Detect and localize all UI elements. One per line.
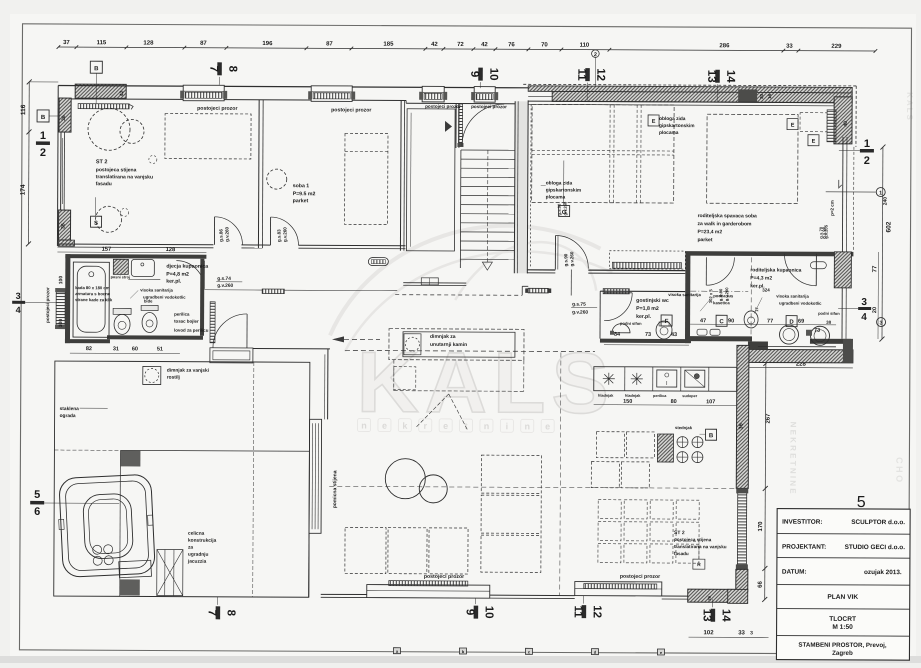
axis marker circled 2 top xyxy=(592,50,600,58)
ST2 dashed circle lower xyxy=(96,206,122,232)
svg-text:p=2 cm: p=2 cm xyxy=(830,200,835,216)
dining table dashed grid xyxy=(598,500,621,519)
wardrobe dashed right xyxy=(800,113,827,132)
section marker 9/10 top xyxy=(478,68,483,81)
section marker 13/14 top xyxy=(715,70,720,83)
svg-text:2: 2 xyxy=(40,147,46,159)
boxed D xyxy=(786,316,797,327)
svg-text:66: 66 xyxy=(758,580,764,587)
svg-text:38: 38 xyxy=(826,320,832,325)
guest wc sink xyxy=(612,324,630,333)
svg-text:e: e xyxy=(545,421,550,431)
bidet xyxy=(141,305,158,310)
svg-text:unutarnji kamin: unutarnji kamin xyxy=(430,342,467,348)
door master bedroom xyxy=(554,235,556,269)
window soba1 top xyxy=(311,86,352,102)
section marker 11/12 top xyxy=(585,68,590,81)
svg-text:postojeci prozor: postojeci prozor xyxy=(197,106,237,112)
living room left wall upper xyxy=(327,349,329,419)
svg-text:E: E xyxy=(791,123,795,129)
svg-text:za: za xyxy=(188,546,193,551)
svg-text:g.s.90: g.s.90 xyxy=(821,226,826,239)
svg-text:128: 128 xyxy=(166,247,176,253)
svg-text:90: 90 xyxy=(728,318,734,324)
svg-text:4: 4 xyxy=(16,305,21,315)
svg-text:g.s.86: g.s.86 xyxy=(218,229,223,242)
svg-text:postojeca stijena: postojeca stijena xyxy=(674,537,712,542)
master wing top wall hatched band xyxy=(523,84,856,86)
svg-text:rostilj: rostilj xyxy=(167,375,180,381)
svg-text:g.v.260: g.v.260 xyxy=(569,251,574,266)
svg-text:42: 42 xyxy=(481,42,488,48)
svg-text:102: 102 xyxy=(704,630,715,636)
section marker 7/8 top xyxy=(217,62,222,75)
svg-text:PROJEKTANT:: PROJEKTANT: xyxy=(782,544,826,551)
svg-text:G: G xyxy=(562,210,567,216)
svg-text:ugradbeni vodokotlic: ugradbeni vodokotlic xyxy=(779,301,822,306)
svg-text:115: 115 xyxy=(97,40,107,46)
svg-text:obloga zida: obloga zida xyxy=(659,116,686,122)
jacuzzi step xyxy=(119,560,152,578)
bathroom sink xyxy=(131,259,154,276)
svg-text:n: n xyxy=(484,421,490,431)
svg-text:PLAN VIK: PLAN VIK xyxy=(827,594,858,601)
living bottom window 1 xyxy=(367,585,490,599)
svg-text:100: 100 xyxy=(58,319,64,328)
svg-text:staklena: staklena xyxy=(60,406,80,412)
coffee tables circles xyxy=(385,459,425,499)
svg-text:36: 36 xyxy=(739,423,745,429)
svg-text:150: 150 xyxy=(623,399,632,405)
svg-text:107: 107 xyxy=(706,399,715,405)
svg-text:11: 11 xyxy=(572,605,584,618)
toilet xyxy=(113,308,131,314)
axis marker circled 3 xyxy=(877,318,886,327)
top-right corner wall xyxy=(834,97,852,144)
left exterior wall lower block xyxy=(58,210,70,240)
bottom frame tick boxes xyxy=(393,648,400,654)
svg-text:postojeci prozor: postojeci prozor xyxy=(424,574,464,580)
svg-text:hladnjak: hladnjak xyxy=(625,394,641,398)
svg-text:69: 69 xyxy=(798,319,804,325)
svg-text:stednjak: stednjak xyxy=(675,425,693,430)
window closet room top xyxy=(422,86,444,102)
svg-text:6: 6 xyxy=(34,506,40,518)
svg-text:72: 72 xyxy=(457,42,464,48)
top-left wall block xyxy=(75,84,126,91)
watermark nekretnine letter boxes xyxy=(358,419,371,432)
svg-text:8: 8 xyxy=(225,610,237,617)
svg-text:n: n xyxy=(361,421,367,431)
door bedroom-bath xyxy=(705,257,707,285)
master bedroom dashed ceiling outline left xyxy=(532,104,674,203)
svg-text:47: 47 xyxy=(700,318,706,324)
boxed label B left xyxy=(37,110,49,122)
ST2 room bottom wall xyxy=(57,243,213,246)
svg-text:plocama: plocama xyxy=(546,194,566,200)
vent grille pill soba1 xyxy=(368,258,388,266)
svg-text:3: 3 xyxy=(750,630,753,636)
svg-text:P=4,3 m2: P=4,3 m2 xyxy=(750,275,772,281)
svg-text:7: 7 xyxy=(207,66,219,72)
svg-text:soba 1: soba 1 xyxy=(293,183,310,189)
svg-text:B: B xyxy=(94,66,99,72)
svg-text:strane kade za klik: strane kade za klik xyxy=(75,297,113,302)
svg-text:F: F xyxy=(665,319,669,325)
svg-text:posni stroj: posni stroj xyxy=(111,275,130,279)
svg-text:jacuzzia: jacuzzia xyxy=(187,559,207,565)
burner symbols xyxy=(603,373,615,385)
svg-text:36: 36 xyxy=(61,115,67,121)
soba1 bed dashed xyxy=(345,133,388,224)
terrace column upper xyxy=(120,450,140,466)
svg-text:e: e xyxy=(382,421,387,431)
svg-text:pomicna stijena: pomicna stijena xyxy=(332,470,338,508)
svg-text:parket: parket xyxy=(293,198,309,204)
vent pill master bath xyxy=(810,262,826,269)
terrace outline xyxy=(54,361,310,597)
dashed construction line bath xyxy=(750,257,752,345)
svg-text:t: t xyxy=(465,421,468,431)
section marker 13/14 bottom xyxy=(711,609,716,622)
jacuzzi side handles xyxy=(59,519,64,529)
bathroom wing right glass wall xyxy=(841,137,844,252)
sofa dashed horizontal xyxy=(345,527,386,573)
svg-text:SCULPTOR d.o.o.: SCULPTOR d.o.o. xyxy=(851,519,905,526)
svg-text:gipskartonskim: gipskartonskim xyxy=(659,123,694,129)
svg-text:E: E xyxy=(812,139,816,145)
svg-text:tosac bojler: tosac bojler xyxy=(174,319,199,324)
svg-text:P=23,4 m2: P=23,4 m2 xyxy=(698,229,723,235)
svg-text:9: 9 xyxy=(468,71,480,77)
svg-text:77: 77 xyxy=(872,265,878,272)
top dimension line xyxy=(58,47,875,51)
svg-text:visoka sanitarija: visoka sanitarija xyxy=(140,287,173,292)
corridor dashed floor line xyxy=(345,350,595,351)
svg-text:postojeci prozor: postojeci prozor xyxy=(425,104,461,109)
svg-text:g.s.74: g.s.74 xyxy=(217,276,231,282)
svg-text:ST 2: ST 2 xyxy=(96,159,108,165)
corridor ceiling line xyxy=(204,289,262,291)
svg-text:76: 76 xyxy=(508,42,515,48)
dim 228 under bath wing xyxy=(748,366,853,369)
bottom right vertical dimension 170 66 xyxy=(765,363,766,599)
svg-text:82: 82 xyxy=(86,346,92,352)
svg-text:84: 84 xyxy=(614,332,621,338)
master bedroom bottom wall right segment xyxy=(588,269,685,271)
svg-text:170: 170 xyxy=(758,521,764,532)
section marker 7/8 bottom xyxy=(216,606,221,619)
svg-text:ST 2: ST 2 xyxy=(674,530,685,536)
svg-text:80: 80 xyxy=(671,399,677,405)
left wall corner piece xyxy=(58,240,74,246)
guest wc toilet xyxy=(656,321,672,339)
guest wc walls xyxy=(600,290,685,292)
bottom dims 102 33 xyxy=(689,636,769,638)
svg-text:STAMBENI PROSTOR, Prevoj,: STAMBENI PROSTOR, Prevoj, xyxy=(798,642,886,649)
door ST2-corridor xyxy=(213,217,215,245)
soba1 bottom wall xyxy=(262,244,270,246)
svg-text:i: i xyxy=(506,421,509,431)
svg-text:174: 174 xyxy=(20,184,27,195)
svg-text:gipskartonskim: gipskartonskim xyxy=(546,187,581,193)
shower area bottom wall xyxy=(690,336,752,341)
construction dashed lines living xyxy=(560,352,561,595)
svg-text:267: 267 xyxy=(766,413,772,424)
svg-text:E: E xyxy=(652,119,656,125)
small table under stairs xyxy=(421,278,438,285)
svg-text:g.s.90: g.s.90 xyxy=(563,253,568,266)
svg-text:C H O: C H O xyxy=(894,457,904,482)
jacuzzi xyxy=(57,474,156,580)
svg-text:11: 11 xyxy=(575,68,587,81)
master bedroom bottom wall left segment xyxy=(527,269,555,271)
svg-text:157: 157 xyxy=(102,247,112,253)
svg-text:240: 240 xyxy=(883,197,889,206)
section marker 11/12 bottom xyxy=(582,605,587,618)
door soba1-corridor xyxy=(269,217,271,245)
svg-text:13: 13 xyxy=(705,70,717,83)
svg-text:87: 87 xyxy=(326,41,333,47)
svg-text:konstrukcija: konstrukcija xyxy=(188,538,217,544)
svg-text:N E K R E T N I N E: N E K R E T N I N E xyxy=(788,422,797,495)
closet room right wall xyxy=(455,104,457,148)
svg-text:roditeljska spavaca soba: roditeljska spavaca soba xyxy=(698,213,757,219)
cabinet strip right wall xyxy=(827,110,836,142)
svg-text:33: 33 xyxy=(738,630,745,636)
svg-text:g.v.260: g.v.260 xyxy=(224,226,229,241)
svg-text:ugradnju: ugradnju xyxy=(188,552,209,558)
stove block xyxy=(657,434,673,462)
svg-text:R: R xyxy=(697,562,701,568)
stairs xyxy=(461,149,515,151)
svg-text:70: 70 xyxy=(541,42,548,48)
corridor top dashed line under stairs xyxy=(395,294,522,297)
svg-text:36: 36 xyxy=(61,223,67,229)
radiator corridor wall xyxy=(210,302,215,343)
closet room bottom wall xyxy=(403,282,466,284)
terrace dashed vertical xyxy=(253,362,254,597)
svg-text:dimnjak za: dimnjak za xyxy=(430,334,456,340)
dark wall block top xyxy=(738,89,757,102)
svg-text:Zagreb: Zagreb xyxy=(832,650,853,657)
svg-text:12: 12 xyxy=(591,605,603,618)
stove burners xyxy=(677,437,688,448)
svg-text:armatura s bocne: armatura s bocne xyxy=(75,291,111,296)
bath wing bottom hatched band xyxy=(748,349,853,363)
title block table xyxy=(776,509,910,661)
svg-text:lovod za perilicu: lovod za perilicu xyxy=(174,328,209,333)
left wall glass strip ST2 xyxy=(60,132,62,210)
svg-text:5: 5 xyxy=(34,489,40,501)
boxed label G master xyxy=(559,205,570,216)
top exterior wall inner line xyxy=(58,99,406,101)
axis marker circled 1 xyxy=(876,188,885,197)
svg-text:42: 42 xyxy=(119,90,125,96)
svg-text:10: 10 xyxy=(487,68,499,81)
svg-text:13: 13 xyxy=(701,609,713,622)
left exterior wall upper blocks xyxy=(59,98,71,132)
svg-text:parket: parket xyxy=(697,237,712,243)
threshold grille corridor xyxy=(528,288,548,293)
svg-text:M 1:50: M 1:50 xyxy=(832,624,853,631)
svg-text:43: 43 xyxy=(671,332,677,338)
svg-text:1: 1 xyxy=(40,130,46,142)
kamin media unit xyxy=(389,329,524,361)
svg-text:g.s.75: g.s.75 xyxy=(572,302,586,308)
svg-text:fasadu: fasadu xyxy=(674,551,689,556)
jacuzzi jets xyxy=(92,545,101,554)
svg-text:sudoper: sudoper xyxy=(682,394,698,398)
living bottom window 2 xyxy=(575,582,662,596)
boxed F xyxy=(661,315,672,326)
door stairwell top xyxy=(458,104,462,146)
svg-text:e: e xyxy=(443,421,448,431)
left dimension line xyxy=(27,82,30,244)
svg-text:1: 1 xyxy=(879,191,882,197)
svg-text:INVESTITOR:: INVESTITOR: xyxy=(782,519,822,526)
svg-text:P=4,8 m2: P=4,8 m2 xyxy=(166,272,189,278)
washing machine xyxy=(113,259,128,274)
svg-text:116: 116 xyxy=(20,104,27,115)
bathtub xyxy=(73,262,109,337)
komarnik box xyxy=(693,559,705,569)
svg-text:37: 37 xyxy=(63,40,70,46)
closet room furniture xyxy=(406,109,455,251)
boxed label B top xyxy=(90,61,102,73)
svg-text:g.v.260: g.v.260 xyxy=(572,310,588,316)
svg-text:DATUM:: DATUM: xyxy=(782,569,807,576)
svg-text:73: 73 xyxy=(814,328,820,334)
window ST2 top xyxy=(183,85,224,101)
svg-text:podni sifon: podni sifon xyxy=(818,311,840,316)
svg-text:20: 20 xyxy=(872,307,878,313)
svg-text:perilica: perilica xyxy=(653,394,667,398)
kitchen wall window strip xyxy=(737,490,746,566)
bottom right hatched wall block xyxy=(688,589,736,602)
svg-text:fasadu: fasadu xyxy=(96,181,112,187)
master bath counter line xyxy=(758,345,836,347)
svg-text:r: r xyxy=(423,421,427,431)
wall wc/shower divider xyxy=(685,255,690,343)
svg-text:40: 40 xyxy=(843,121,849,127)
sofa dashed vertical xyxy=(481,455,541,493)
svg-text:visoka sanitarija: visoka sanitarija xyxy=(776,294,809,299)
terrace steps xyxy=(157,550,183,596)
kitchen worktop square xyxy=(685,370,705,387)
kitchen counter xyxy=(594,367,737,392)
svg-text:73: 73 xyxy=(645,332,651,338)
svg-text:g.v.260: g.v.260 xyxy=(282,227,287,242)
top exterior wall outer line xyxy=(58,86,528,88)
svg-text:roditeljska kupaonica: roditeljska kupaonica xyxy=(750,267,801,273)
diagonal dashed leaders xyxy=(416,394,449,428)
svg-text:30: 30 xyxy=(759,93,764,99)
svg-text:ograda: ograda xyxy=(60,413,76,419)
terrace column lower xyxy=(120,579,140,595)
svg-text:229: 229 xyxy=(831,44,842,50)
svg-text:postojeci prozor: postojeci prozor xyxy=(620,574,660,580)
svg-text:obloga zida: obloga zida xyxy=(546,180,573,186)
svg-text:ker.pl.: ker.pl. xyxy=(166,279,182,285)
svg-text:77: 77 xyxy=(767,319,773,325)
svg-text:djecja kupaonica: djecja kupaonica xyxy=(166,264,208,270)
boxed C xyxy=(716,315,727,326)
svg-text:286: 286 xyxy=(719,43,730,49)
svg-text:hladnjak: hladnjak xyxy=(598,394,614,398)
svg-text:B: B xyxy=(41,115,46,121)
stairwell right wall xyxy=(514,101,528,273)
svg-text:perilica: perilica xyxy=(174,312,190,317)
kitchen wall lower hatched xyxy=(736,569,748,591)
svg-text:dimnjak za vanjski: dimnjak za vanjski xyxy=(167,368,209,374)
svg-text:translatirana na vanjsku: translatirana na vanjsku xyxy=(96,174,153,180)
svg-text:P=1,8 m2: P=1,8 m2 xyxy=(636,306,659,312)
svg-text:n: n xyxy=(524,421,530,431)
section marker 9/10 bottom xyxy=(474,606,479,619)
svg-text:4: 4 xyxy=(861,312,867,323)
svg-text:ozujak 2013.: ozujak 2013. xyxy=(864,569,902,576)
bathroom wing top wall dark xyxy=(685,251,853,256)
divider soba1 / closet room xyxy=(399,101,402,251)
svg-text:plocama: plocama xyxy=(659,130,679,136)
svg-text:celicna: celicna xyxy=(188,531,205,537)
svg-text:10: 10 xyxy=(483,606,495,619)
boxed B kitchen xyxy=(705,429,716,440)
svg-text:kasetica: kasetica xyxy=(713,300,730,305)
svg-text:K A L S: K A L S xyxy=(905,92,914,120)
svg-text:110: 110 xyxy=(580,43,590,49)
right wall block master bath xyxy=(834,252,851,288)
right glass wall lower xyxy=(841,288,843,339)
svg-text:12: 12 xyxy=(594,68,606,81)
svg-text:128: 128 xyxy=(143,40,154,46)
svg-text:7: 7 xyxy=(206,610,218,616)
ST2 armchair dashed circles xyxy=(88,108,130,150)
stairs center dashed line with arrow xyxy=(486,150,489,262)
svg-text:17: 17 xyxy=(754,306,759,311)
svg-text:324: 324 xyxy=(762,287,770,292)
svg-text:26: 26 xyxy=(707,595,712,600)
corridor bottom wall / bench zone xyxy=(253,347,330,349)
kamin dashed extension xyxy=(393,360,395,391)
svg-text:3: 3 xyxy=(880,321,883,327)
svg-text:za walk in garderobom: za walk in garderobom xyxy=(698,221,752,227)
kitchen island dashed cells xyxy=(596,432,624,458)
svg-text:33: 33 xyxy=(786,44,793,50)
master bath toilet xyxy=(744,311,758,328)
right dimension 77 20 xyxy=(877,252,879,339)
svg-text:3: 3 xyxy=(16,291,21,301)
door master bath right xyxy=(815,254,817,286)
svg-text:51: 51 xyxy=(157,347,163,353)
svg-text:KALS: KALS xyxy=(357,334,616,431)
right dimension line 602 xyxy=(881,147,884,339)
svg-text:postojeci prozor: postojeci prozor xyxy=(331,107,371,113)
master bedroom dashed ceiling outline right xyxy=(707,114,798,203)
svg-text:42: 42 xyxy=(431,42,438,48)
door children bathroom xyxy=(176,261,204,289)
sliding glass door to terrace xyxy=(309,419,322,533)
right wall arrow and label xyxy=(839,180,842,188)
svg-text:kada 80 x 180 cm: kada 80 x 180 cm xyxy=(75,285,110,290)
svg-text:visoka sanitarija: visoka sanitarija xyxy=(668,292,701,297)
svg-text:196: 196 xyxy=(262,41,273,47)
svg-text:602: 602 xyxy=(886,221,893,232)
svg-text:podni sifon: podni sifon xyxy=(620,321,642,326)
window stairwell top xyxy=(474,87,495,103)
door guest wc xyxy=(604,292,632,294)
